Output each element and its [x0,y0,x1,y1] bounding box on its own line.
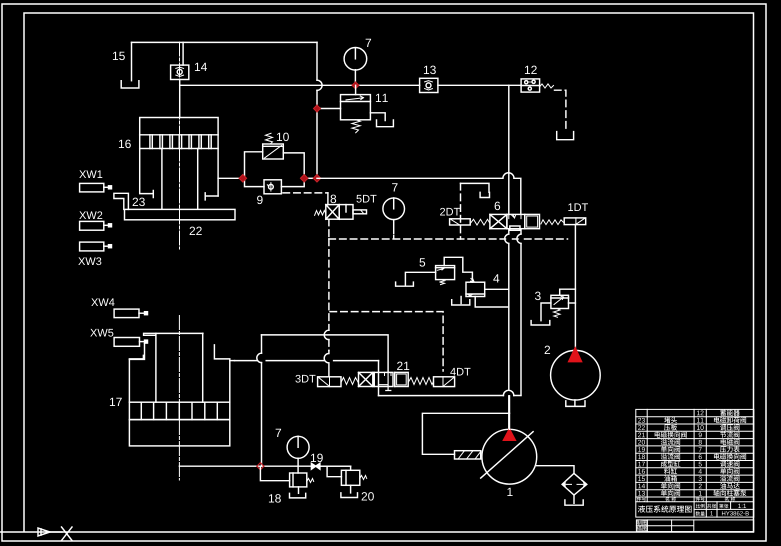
node bottom rail [257,463,264,470]
label 22 [190,227,202,235]
throttle valve 9 [264,180,281,194]
block 17 piston columns [156,333,203,402]
label 7 bottom [276,429,281,437]
valve 4 drain tank [452,300,470,305]
XW1 label [79,170,102,178]
lower signature table [636,520,753,532]
gauge 7 bottom [287,436,309,466]
label 12 [525,66,537,74]
wire riser 261 upper [261,335,263,466]
pilot dashed below valve 8 [328,219,330,239]
valve 8 solenoid pin [353,210,367,214]
XW5 box [114,338,147,347]
G10 pump 1 motor 2 valve 3 filter [422,289,600,505]
G7 solenoid valve 21 with 3DT 4DT [235,335,521,466]
block 16 left wall and bracket [140,149,154,198]
wire gauge stem to valve 18 [297,466,299,473]
XW4 label [91,298,114,306]
block 16 comb cells [150,135,211,149]
valve 6 right position box [525,214,540,228]
XW2 label [79,211,102,219]
node loop left [239,175,247,183]
platen box 22 [125,209,236,219]
centerline upper assembly [179,42,181,249]
border flow arrow symbol [38,528,50,536]
label 23 [133,198,145,206]
label 2DT [440,208,460,216]
valve 5 body [436,266,455,280]
valve 4 drain to tank [460,297,462,304]
label 13 [424,66,436,74]
valve 20 tank [341,493,358,498]
label 4DT [450,368,470,376]
valve 10 spring [266,133,273,143]
label 4 [493,274,499,282]
relief valve 20 [341,470,359,485]
wire block16 to junction [218,177,243,179]
valve 18 spring [307,479,314,483]
block 16 right wall [217,149,219,197]
relief valve 3 body [551,295,569,308]
unloading valve 12 [521,79,540,92]
valve 4 inlet arrow [471,278,475,282]
XW3 box [80,242,112,251]
border X mark [62,527,73,541]
bracket 23 step [114,193,128,209]
node loop right [300,175,308,183]
XW5 label [90,329,113,337]
label 15 [113,52,125,60]
check valve 13 [420,78,438,92]
valve 4 bottom branch [475,297,509,308]
valve 21 left position box [359,372,373,386]
label 11 [376,94,388,102]
check valve 14 [171,65,189,79]
motor 2 circle [551,350,601,400]
wire line B [180,84,521,86]
relief valve 18 [290,473,307,487]
wire box14 feed [182,42,184,65]
label 5DT [356,195,376,203]
suction strainer hatch box [455,451,482,459]
centerline lower assembly [178,316,180,481]
wire node branch to valve 11 [317,108,341,110]
node main junction [313,175,321,183]
label 7 top [366,39,371,47]
wire XW5 to block 17 [129,344,144,360]
valve 8 body 5DT [326,205,353,220]
block 17 right wall [214,345,229,402]
label 3DT [295,375,315,383]
valve 20 drain [350,485,352,493]
valve 4 body [466,282,485,296]
node on line B at gauge stem [352,82,359,89]
block 17 comb row [129,402,229,419]
relief valve 10 [263,144,284,159]
wire vertical line B to valve 6 [508,85,510,214]
valve 21 right position box [395,372,408,386]
valve 21 solenoid pin left [318,377,341,387]
XW3 label [78,257,101,265]
G3 bypass loop valves 9 and 10 [239,133,521,215]
valve 18 drain [298,487,300,493]
wire valve 6 bottom right vertical with hop [520,229,522,396]
G2 top rails gauge7a valve11 check13 valve12 [180,39,574,179]
wire pump to filter [537,466,574,474]
valve 6 spring right [541,220,563,225]
wire block 17 right outlet [230,360,235,362]
title block column lines [647,409,754,517]
wire valve 5 top bracket to valve 4 [444,257,472,282]
title block row lines [636,417,754,502]
title row sub grid [694,502,754,517]
valve 11 spring [352,120,360,133]
G9 gauge 7c check 19 relief valves 18 20 [257,429,374,503]
motor 2 flow triangle [569,348,582,362]
check valve 19 [311,463,320,469]
relief valve 11 [341,95,371,120]
wire box14 to block16 [179,80,181,118]
valve 6 tank bracket [461,183,490,197]
wire pump outlet [509,396,511,430]
wire pilot down to valve 8 [327,193,329,205]
block 17 left wall [129,355,143,402]
valve 5 drain tank [396,282,414,286]
block 17 bottom plate [129,420,229,446]
wire junction link [304,177,317,179]
label 19 [311,454,323,462]
node at valve 11 branch [314,105,321,112]
crossover hop junction line [503,173,514,179]
valve 6 spring left [470,219,490,225]
valve 8 spring [315,211,326,216]
wire junction line to valve 6 with hop [317,178,521,214]
valve 3 drain left [541,303,551,321]
XW1 box [80,183,112,192]
label 6 [495,202,501,210]
valve 21 spring left [341,378,359,385]
hop arcs on left vertical [505,234,509,244]
label 1 [507,488,512,496]
XW2 box [80,221,112,230]
label 20 [362,492,374,500]
wire valve21 top feed [262,335,389,373]
dashed enclosure corner [330,312,443,371]
G5 solenoid valve 6 with 2DT 1DT [440,85,588,429]
wire loop upper path [243,152,263,179]
label 1DT [568,203,588,211]
valve 21 divider right [394,372,396,386]
label 17 [110,398,122,406]
label 14 [195,63,207,71]
G11 title block [636,409,754,531]
wire bottom rail left [179,465,350,467]
wire riser to valve 11 [355,85,357,94]
valve 3 spring [554,309,561,318]
wire valve 4 to main line [485,288,509,290]
G6 sequence valves 5 and 4 [330,257,509,371]
valve 20 spring [360,476,367,480]
valve 21 solenoid pin right 4DT [434,377,455,387]
wire valve 21 bottom rail to pump riser [379,395,521,397]
label 2 [545,346,550,354]
valve 21 divider left [373,372,375,386]
wire loop lower right [281,178,304,186]
label 7 middle [392,183,397,191]
block 16 body [140,118,218,149]
filter diamond [562,473,587,495]
label 16 [119,140,131,148]
filter drain [573,495,575,503]
gauge 7 top [344,48,367,86]
block 17 piston cap [144,333,203,335]
title block texts [637,410,749,532]
wire valve 6 bottom left vertical with hops [508,229,510,430]
wire loop lower path [243,178,264,186]
valve 5 spring below [440,280,445,285]
valve 6 left position box [490,214,507,228]
label 10 [277,133,289,141]
valve 11 drain tank [370,113,393,127]
wire stub to X [50,531,62,533]
XW4 box [114,309,147,318]
tank 15 [121,42,139,88]
title block outer [636,409,754,517]
G1 left assembly [78,42,317,265]
label 9 [257,196,263,204]
valve 12 spring [540,84,554,88]
hop arc bottom rail over pump vertical [503,390,513,395]
valve 6 solenoid pin right 1DT [564,218,586,225]
wire loop upper right [283,153,304,178]
valve 5 left drain [405,272,435,286]
wire valve21 inlet vertical [378,361,380,396]
wire main top vertical with hop over line B [316,42,318,178]
label 3 [535,292,541,300]
filter tank [565,500,583,505]
pump 1 flow triangle [503,429,515,440]
wire suction loop [422,413,509,454]
valve 12 pilot dashed [555,90,566,131]
label 5 [419,258,425,266]
block 16 plunger legs [162,149,198,209]
motor 2 drain mount [566,400,585,406]
G8 cylinder block 17 with XW4 XW5 [90,298,350,480]
wire 1DT riser down to motor [574,225,576,351]
valve 6 center box [507,214,525,230]
pump 1 variable diagonal [481,432,533,478]
pilot hop over rail at 3DT riser [324,330,329,377]
crossover hop [317,80,322,90]
valve 3 tank [531,321,550,325]
label 21 [397,362,409,370]
valve 21 center box [374,372,393,390]
wire rail from block17 to valve 21 with hops [235,360,379,362]
pilot dashed valve8 to 3DT vertical [328,239,330,351]
pilot dashed 2DT branch [460,183,462,239]
G4 solenoid valve 8 gauge 7b dashed pilot rails [315,183,568,377]
wire branch to valve 18 left [260,466,289,481]
wire rail to valve 20 [320,466,351,470]
pilot dashed from valve 9 to valve 8 [283,192,328,194]
hop arc on right vertical [517,234,521,244]
valve 18 tank [290,493,306,498]
wire line A top [132,41,318,43]
block 16 right bracket [205,193,218,200]
label 8 [331,195,337,203]
valve 6 solenoid pin left [450,219,471,225]
valve 3 outlet to motor line [569,302,576,304]
hop arc riser 261 [257,353,262,362]
gauge 7 middle [383,198,405,239]
pump 1 circle [482,429,537,484]
valve 3 top pilot [560,289,576,295]
label 18 [269,494,281,502]
valve 21 spring right [408,378,433,385]
pilot dashed rail mid [329,238,568,240]
valve 12 drain tank [557,132,574,140]
wire branch valve 20 left [327,466,341,477]
